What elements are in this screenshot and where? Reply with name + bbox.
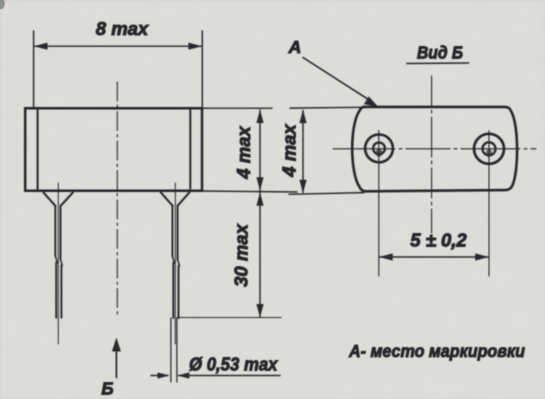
dimension 5 ± 0,2 : arrowheads — [379, 253, 489, 260]
right view body outline — [352, 107, 517, 191]
svg-text:5 ± 0,2: 5 ± 0,2 — [410, 230, 467, 251]
dimension 4 max (left view) : arrowheads — [256, 110, 263, 191]
svg-text:Б: Б — [101, 379, 113, 399]
dimension 30 max : bottom extension line — [177, 317, 281, 319]
hole 2 outer circle — [474, 134, 504, 164]
body inner edge lines — [38, 109, 191, 190]
lead 1 break jog — [55, 256, 62, 266]
svg-text:4 max: 4 max — [279, 124, 300, 178]
dimension 8 max : arrowheads — [34, 43, 203, 50]
horizontal centerline of right view — [333, 148, 536, 150]
lead 2 outline upper segment — [172, 206, 177, 260]
dimension 4 max (right view) : dimension line — [302, 111, 304, 193]
hole 2 center line / extension — [488, 131, 490, 277]
dimension Ø 0,53 max : dimension line with arrows — [151, 375, 280, 377]
svg-text:А: А — [288, 37, 302, 57]
svg-text:А- место маркировки: А- место маркировки — [348, 341, 525, 361]
lead 2 outline lower segment — [173, 263, 178, 318]
hole 1 inner circle (lead) — [373, 143, 385, 155]
svg-text:4 max: 4 max — [233, 126, 254, 180]
leader A : line — [303, 58, 371, 101]
lead 2 thin edge lines extended to diameter dimension — [171, 318, 177, 382]
extension line bottom right of body — [203, 191, 297, 192]
vertical centerline of right view — [431, 76, 433, 233]
svg-text:Ø 0,53 max: Ø 0,53 max — [189, 354, 278, 375]
lead 2 taper — [161, 192, 190, 206]
dimension 30 max : dimension line — [259, 193, 261, 318]
dimension 4 max (right view) : extension lines — [289, 107, 364, 194]
dimension 8 max : dimension line — [34, 45, 202, 47]
dimension 4 max (right view) : arrowheads — [299, 110, 306, 194]
corner smudge top-left — [0, 0, 5, 9]
hole 1 outer circle — [365, 135, 393, 163]
arrow Б (view direction) — [115, 350, 117, 378]
svg-text:8 max: 8 max — [96, 18, 149, 39]
hole 2 lead tip shading — [486, 149, 492, 157]
lead 1 center line — [57, 183, 59, 344]
lead 1 outline lower segment — [56, 263, 61, 318]
vertical centerline of left view (dash-dot) — [116, 82, 118, 317]
svg-text:30 max: 30 max — [231, 223, 252, 286]
view title underline — [407, 62, 469, 65]
lead 1 taper — [44, 193, 73, 206]
extension line top right of body — [203, 107, 272, 109]
hole 1 lead tip shading — [376, 149, 382, 157]
dimension 5 ± 0,2 : dimension line — [380, 256, 489, 258]
hole 1 center line / extension — [378, 131, 380, 277]
leader A : arrowhead — [364, 96, 378, 107]
lead 1 outline upper segment — [55, 206, 60, 259]
body outline — [25, 108, 202, 191]
hole 2 inner circle (lead) — [483, 142, 496, 155]
lead 2 center line — [174, 183, 176, 344]
dimension 8 max : extension lines — [34, 31, 203, 108]
dimension 4 max (left view) : dimension line — [259, 110, 261, 191]
dimension 30 max : arrowheads — [256, 192, 263, 317]
svg-text:Вид Б: Вид Б — [417, 43, 463, 63]
lead 2 break jog — [172, 256, 179, 266]
